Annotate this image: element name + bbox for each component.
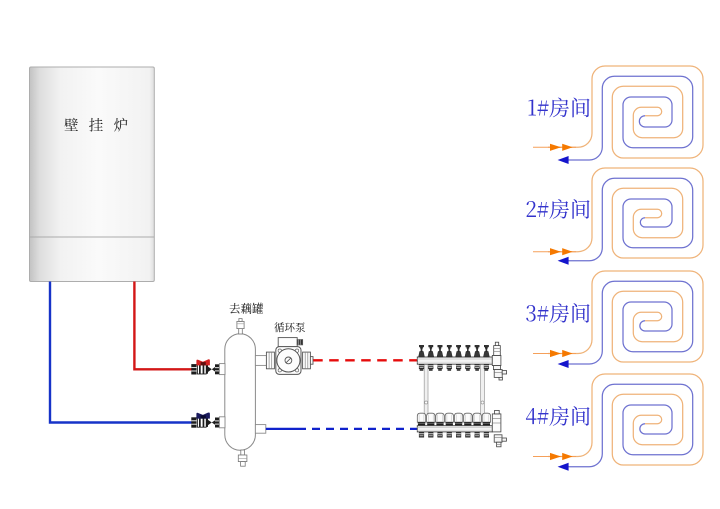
supply shut-off valve (red handle): [191, 359, 219, 374]
return manifold: 8 union nuts: [419, 432, 489, 438]
room 4 floor-heating coil: return (blue) spiral: [568, 384, 693, 466]
separator air vent (top): [237, 319, 244, 334]
separator left-top port stub: [219, 364, 225, 375]
separator drain (bottom): [238, 450, 247, 466]
supply manifold mounting rails: [424, 364, 484, 426]
svg-text:壁挂炉: 壁挂炉: [64, 115, 138, 136]
return manifold: 8 flow meters: [417, 413, 490, 422]
boiler return pipe (blue, cold): [50, 282, 192, 423]
circulation pump body: [276, 347, 301, 375]
hydraulic separator tank: [225, 334, 256, 451]
return manifold right end: drain cock: [494, 435, 506, 447]
room 3 return flow arrow (blue): [558, 360, 569, 368]
svg-text:去藕罐: 去藕罐: [229, 301, 264, 317]
separator right-bottom port stub: [255, 425, 265, 434]
boiler supply pipe (red, hot): [134, 282, 191, 370]
supply manifold: 8 eurocone union nuts: [419, 364, 489, 371]
circulation pump terminal box: [278, 338, 302, 347]
return manifold body bar: [417, 426, 492, 432]
room 3 supply flow arrows (orange, double): [550, 350, 573, 357]
supply manifold right end: air vent: [492, 342, 501, 365]
supply manifold body bar: [417, 357, 492, 364]
room 2 supply lead line: [533, 251, 576, 253]
return manifold: 8 meter collars: [418, 422, 490, 425]
room 1 supply flow arrows (orange, double): [550, 144, 573, 151]
room 1 supply lead line: [533, 146, 576, 148]
supply dashed pipe (pump to manifold): [313, 359, 417, 361]
room 4 supply flow arrows (orange, double): [550, 453, 573, 460]
circulation pump left union: [266, 352, 274, 369]
room 4 return flow arrow (blue): [558, 463, 569, 471]
return manifold right end: end cap valve: [492, 410, 501, 432]
room 3 supply lead line: [533, 353, 576, 355]
circulation pump right union: [303, 352, 313, 369]
svg-text:4#房间: 4#房间: [525, 401, 591, 431]
supply manifold: 8 lockshield valve caps: [419, 345, 490, 357]
return solid pipe (separator to dash start): [266, 428, 306, 430]
room 4 floor-heating coil: supply (orange) spiral: [548, 374, 703, 465]
svg-text:3#房间: 3#房间: [525, 298, 591, 328]
room 1 floor-heating coil: return (blue) spiral: [568, 76, 693, 160]
room 2 floor-heating coil: supply (orange) spiral: [548, 168, 703, 258]
svg-text:循环泵: 循环泵: [274, 320, 306, 335]
supply manifold right end: fill/drain valve: [493, 366, 506, 380]
room 1 floor-heating coil: supply (orange) spiral: [548, 66, 703, 158]
room 1 return flow arrow (blue): [558, 156, 569, 164]
room 4 supply lead line: [533, 456, 576, 458]
return shut-off valve (blue handle): [191, 412, 219, 427]
svg-text:2#房间: 2#房间: [525, 194, 591, 224]
room 3 floor-heating coil: supply (orange) spiral: [548, 271, 703, 362]
wall-hung boiler body: [30, 67, 155, 282]
pump inlet stub from separator: [255, 356, 266, 366]
return dashed pipe (manifold to separator): [312, 428, 417, 430]
room 2 return flow arrow (blue): [558, 257, 569, 265]
separator left-bottom port stub: [219, 417, 225, 428]
svg-text:1#房间: 1#房间: [527, 93, 591, 123]
boiler lower panel divider: [30, 236, 155, 238]
room 2 floor-heating coil: return (blue) spiral: [568, 178, 693, 260]
room 2 supply flow arrows (orange, double): [550, 248, 573, 255]
room 3 floor-heating coil: return (blue) spiral: [568, 281, 693, 364]
